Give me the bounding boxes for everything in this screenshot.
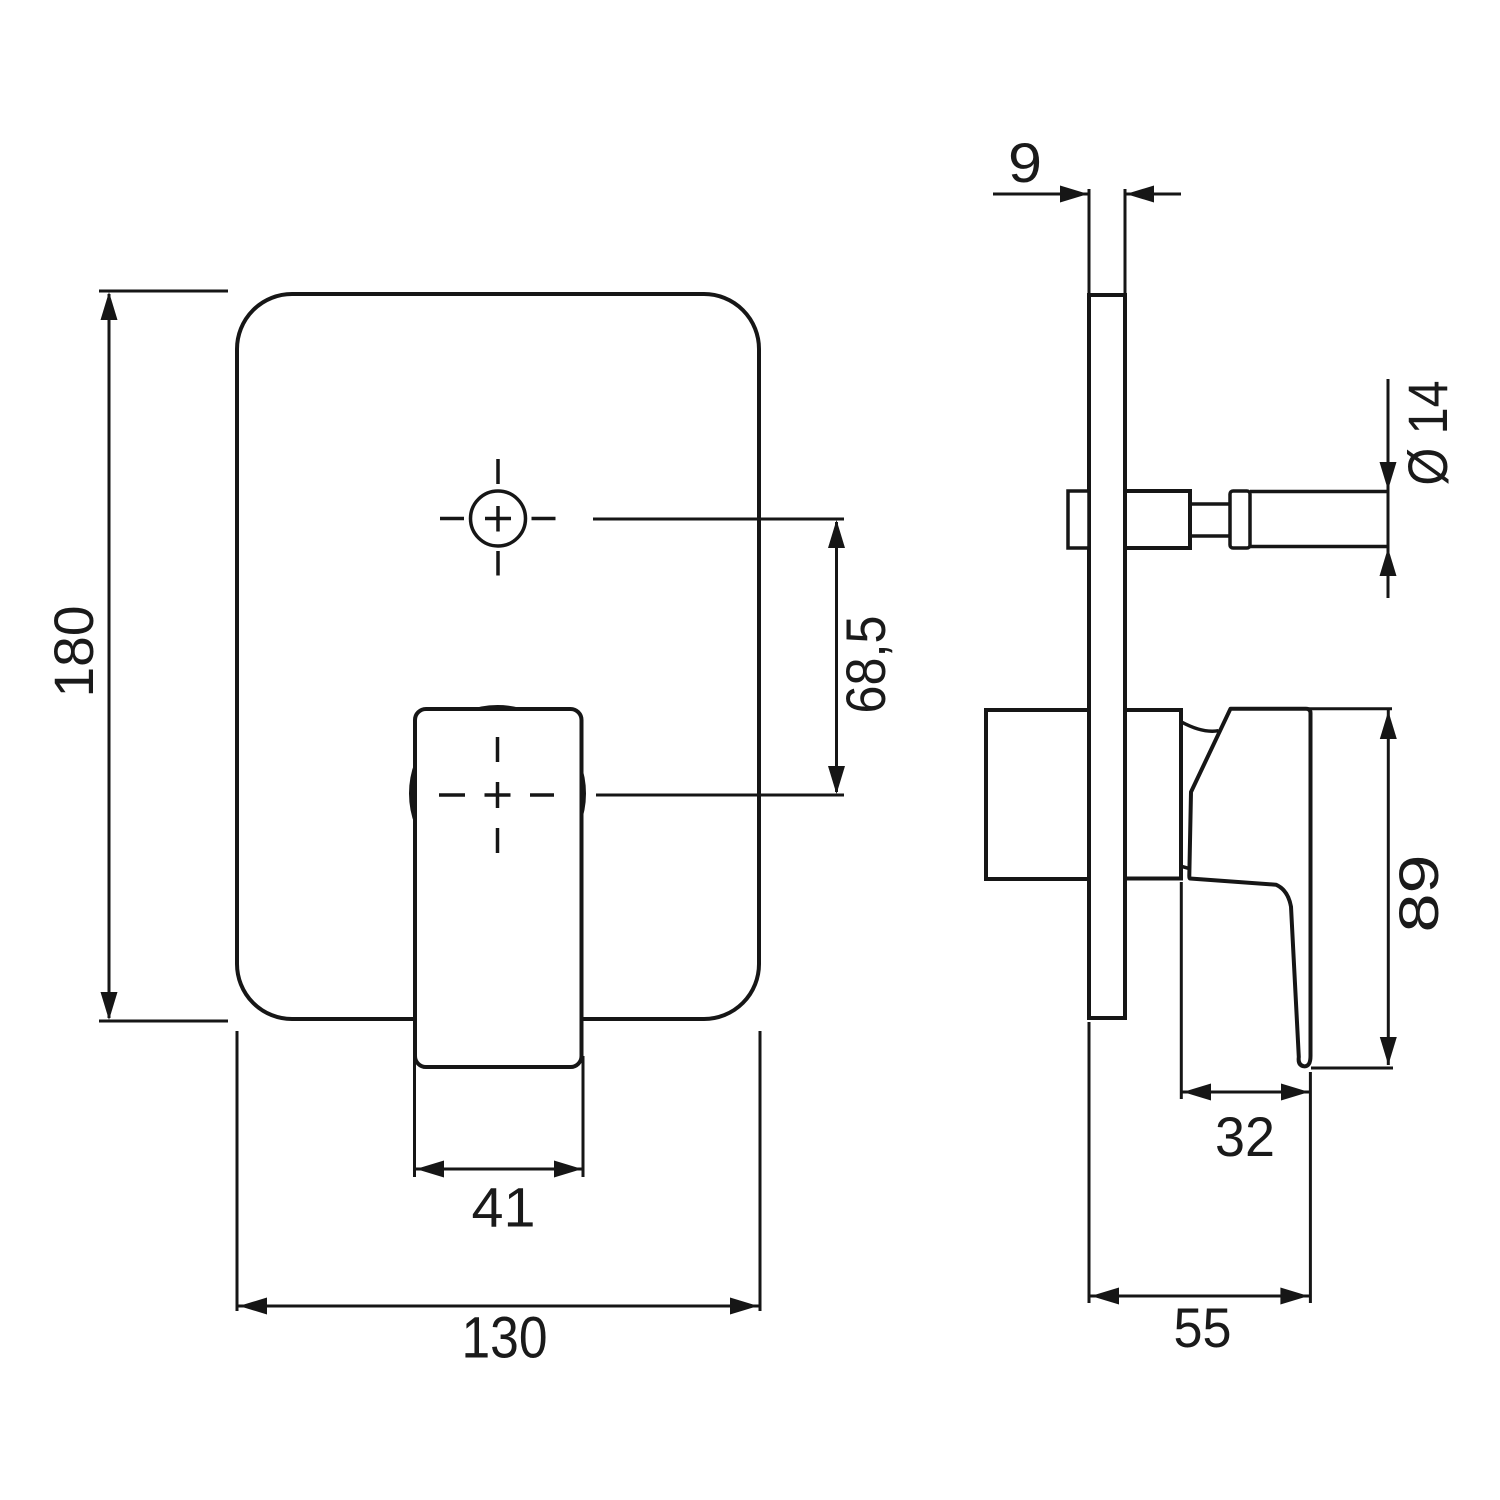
svg-text:32: 32 (1215, 1105, 1275, 1168)
svg-text:89: 89 (1387, 855, 1450, 933)
svg-text:130: 130 (462, 1306, 548, 1371)
svg-text:Ø 14: Ø 14 (1396, 381, 1459, 486)
svg-text:180: 180 (42, 606, 105, 698)
svg-text:55: 55 (1174, 1296, 1232, 1359)
svg-text:68,5: 68,5 (834, 616, 897, 714)
svg-text:9: 9 (1008, 131, 1042, 194)
svg-text:41: 41 (472, 1176, 536, 1239)
